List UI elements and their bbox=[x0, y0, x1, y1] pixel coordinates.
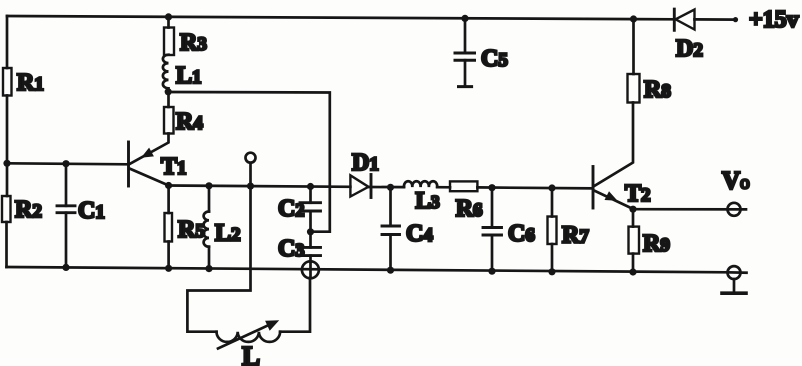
transistor T1 bbox=[129, 134, 187, 187]
node: top rail C5 junction bbox=[461, 15, 468, 22]
capacitor C4 bbox=[382, 187, 433, 270]
capacitor C3 bbox=[278, 232, 321, 262]
inductor L2 bbox=[204, 186, 241, 269]
inductor L (variable, external) bbox=[217, 278, 311, 366]
node: R7 top junction bbox=[548, 184, 555, 191]
svg-text:+15v: +15v bbox=[749, 7, 799, 33]
node: base wire left junction bbox=[3, 160, 10, 167]
wire: feedback from L1 node to C2/C3 midpoint bbox=[168, 92, 330, 232]
svg-text:T1: T1 bbox=[161, 154, 187, 180]
svg-text:C2: C2 bbox=[278, 196, 304, 222]
svg-text:C3: C3 bbox=[278, 236, 304, 262]
wire: top rail right segment after D2 bbox=[695, 18, 736, 21]
capacitor C1 bbox=[57, 164, 105, 268]
terminal: Vo output circle bbox=[728, 203, 741, 216]
node: L2 top junction bbox=[205, 182, 212, 189]
node: top rail R3 junction bbox=[165, 13, 172, 20]
resistor R7 bbox=[548, 188, 590, 272]
wire: mid wire from D1 cathode to L3 bbox=[369, 186, 405, 189]
node: top rail R8 junction bbox=[630, 15, 637, 22]
resistor R9 bbox=[629, 209, 670, 272]
node: R7 bottom junction bbox=[548, 268, 555, 275]
resistor R1 bbox=[3, 68, 44, 96]
svg-text:R8: R8 bbox=[644, 77, 671, 103]
wire: mid wire from T1 collector to D1 bbox=[169, 186, 351, 187]
capacitor C6 bbox=[483, 188, 535, 272]
resistor R5 bbox=[165, 186, 205, 269]
svg-text:R1: R1 bbox=[17, 70, 44, 96]
svg-text:R2: R2 bbox=[15, 197, 42, 223]
transistor T2 bbox=[593, 103, 651, 210]
svg-text:D2: D2 bbox=[676, 36, 703, 62]
inductor L1 bbox=[163, 55, 202, 89]
svg-text:L: L bbox=[242, 341, 260, 366]
svg-text:C5: C5 bbox=[481, 46, 508, 72]
resistor R4 bbox=[164, 92, 203, 135]
resistor R6 bbox=[450, 181, 483, 222]
terminal: tap circle above mid wire bbox=[246, 153, 256, 186]
svg-text:D1: D1 bbox=[352, 150, 379, 176]
capacitor C5 bbox=[455, 18, 508, 86]
capacitor C2 bbox=[278, 187, 321, 232]
node: T1 collector junction bbox=[165, 182, 172, 189]
node: C1 top junction bbox=[62, 160, 69, 167]
node: T2 emitter junction bbox=[629, 206, 636, 213]
wire: T1 base wire bbox=[7, 163, 129, 164]
wire: output wire to Vo terminal bbox=[633, 208, 746, 211]
node: C4 top junction bbox=[387, 184, 394, 191]
wire: mid wire from L3 to R6 bbox=[437, 186, 450, 189]
node: L1/R4 feedback junction bbox=[165, 88, 172, 95]
svg-text:R6: R6 bbox=[456, 196, 483, 222]
node: C6 top junction bbox=[488, 184, 495, 191]
svg-text:L1: L1 bbox=[176, 63, 202, 89]
node: tap line junction bbox=[247, 183, 254, 190]
node: C4 bottom junction bbox=[387, 267, 394, 274]
svg-text:R5: R5 bbox=[178, 217, 205, 243]
node: C2 top junction bbox=[307, 183, 314, 190]
svg-text:R9: R9 bbox=[643, 231, 670, 257]
wire: tap line down to external coil bbox=[187, 186, 250, 332]
node: L2 bottom junction bbox=[205, 265, 212, 272]
node: R5 bottom junction bbox=[165, 265, 172, 272]
svg-text:C6: C6 bbox=[508, 221, 535, 247]
node: R9 bottom junction bbox=[629, 268, 636, 275]
svg-text:R7: R7 bbox=[562, 223, 589, 249]
wire: bottom ground rail bbox=[7, 267, 728, 272]
svg-text:L3: L3 bbox=[416, 188, 440, 213]
svg-text:R3: R3 bbox=[180, 30, 207, 56]
node: C2/C3 midpoint junction bbox=[307, 228, 314, 235]
inductor L3 bbox=[404, 181, 440, 213]
wire: mid wire from R6 to T2 base bbox=[477, 187, 593, 188]
svg-text:C4: C4 bbox=[406, 221, 433, 247]
svg-text:T2: T2 bbox=[625, 181, 651, 207]
svg-text:R4: R4 bbox=[176, 109, 203, 135]
diode D1 bbox=[350, 150, 378, 198]
node: C1 bottom junction bbox=[62, 264, 69, 271]
resistor R2 bbox=[2, 196, 42, 223]
node: C6 bottom junction bbox=[488, 268, 495, 275]
wire: left vertical rail bbox=[6, 16, 9, 68]
svg-text:L2: L2 bbox=[215, 221, 241, 247]
node: +15v terminal dot bbox=[733, 17, 738, 22]
wire: top supply rail bbox=[7, 16, 674, 19]
svg-text:C1: C1 bbox=[78, 198, 105, 224]
svg-text:Vo: Vo bbox=[722, 168, 750, 195]
diode D2 bbox=[674, 9, 703, 62]
ground bbox=[722, 279, 746, 293]
terminal: crossed circle on ground rail bbox=[302, 261, 319, 278]
resistor R3 bbox=[164, 17, 207, 56]
resistor R8 bbox=[628, 19, 671, 103]
terminal: ground output circle bbox=[728, 266, 747, 279]
